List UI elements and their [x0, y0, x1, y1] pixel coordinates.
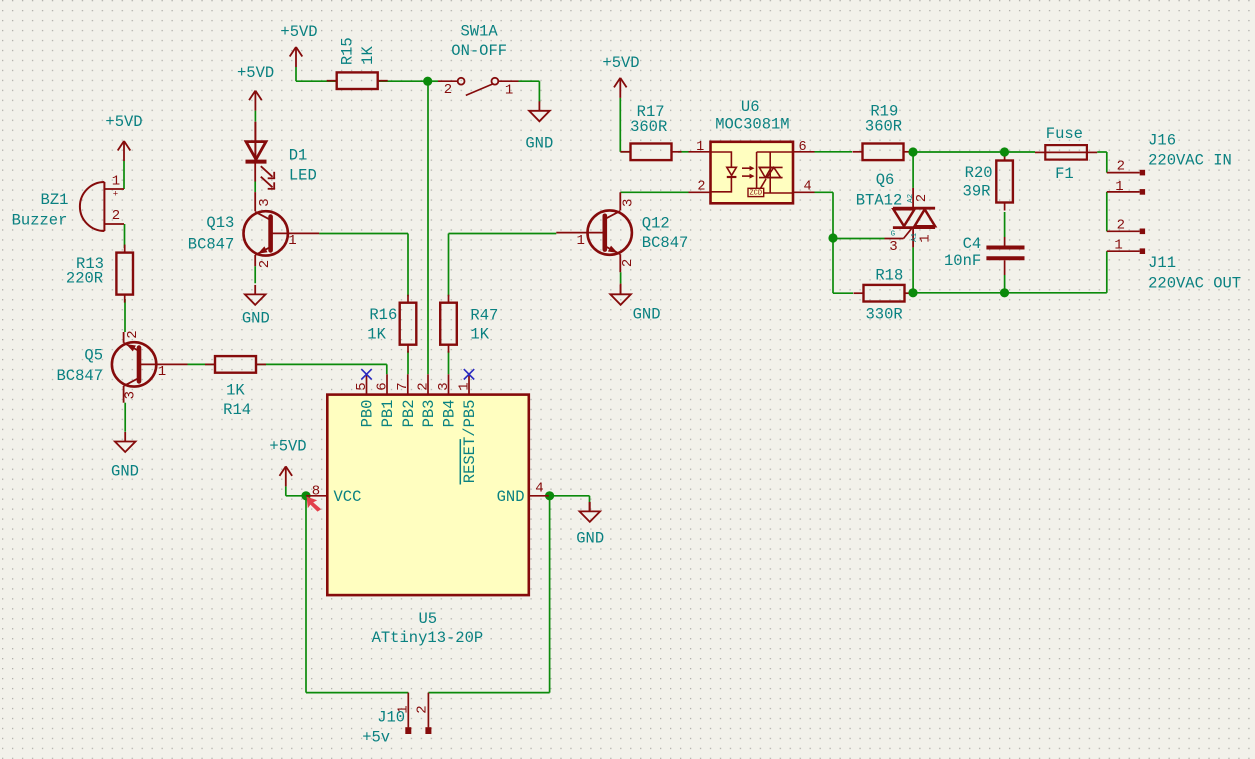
svg-text:R14: R14	[223, 401, 251, 419]
svg-text:ATtiny13-20P: ATtiny13-20P	[372, 629, 484, 647]
svg-text:4: 4	[535, 481, 543, 497]
svg-text:3: 3	[889, 239, 897, 255]
svg-text:GND: GND	[111, 462, 139, 480]
svg-text:R15: R15	[339, 37, 357, 65]
svg-text:BC847: BC847	[642, 234, 689, 252]
svg-text:GND: GND	[633, 305, 661, 323]
svg-text:2: 2	[444, 82, 452, 98]
svg-text:39R: 39R	[963, 182, 991, 200]
svg-text:6: 6	[798, 140, 806, 155]
svg-text:+5VD: +5VD	[602, 54, 639, 72]
svg-text:6: 6	[374, 382, 390, 390]
svg-text:8: 8	[312, 483, 320, 499]
svg-text:Q6: Q6	[876, 171, 895, 189]
svg-text:4: 4	[804, 180, 812, 195]
svg-text:R18: R18	[875, 266, 903, 284]
svg-text:1: 1	[576, 233, 584, 249]
svg-text:BZ1: BZ1	[41, 191, 69, 209]
svg-text:2: 2	[125, 330, 141, 338]
svg-text:BTA12: BTA12	[856, 191, 903, 209]
svg-text:R16: R16	[369, 306, 397, 324]
svg-text:1: 1	[918, 234, 934, 242]
svg-text:220VAC OUT: 220VAC OUT	[1148, 274, 1241, 292]
svg-text:10nF: 10nF	[944, 252, 981, 270]
svg-text:1K: 1K	[367, 326, 386, 344]
svg-text:GND: GND	[497, 488, 525, 506]
svg-text:+5VD: +5VD	[105, 113, 142, 131]
svg-text:D1: D1	[289, 147, 308, 165]
svg-text:RESET/PB5: RESET/PB5	[461, 400, 479, 484]
svg-text:2: 2	[697, 180, 705, 195]
svg-text:1: 1	[112, 174, 120, 190]
svg-text:1: 1	[288, 233, 296, 249]
svg-text:C4: C4	[963, 235, 982, 253]
svg-text:R47: R47	[470, 306, 498, 324]
svg-text:2: 2	[257, 260, 273, 268]
svg-text:SW1A: SW1A	[460, 22, 498, 40]
svg-text:F1: F1	[1055, 165, 1074, 183]
svg-text:220VAC IN: 220VAC IN	[1148, 152, 1232, 170]
svg-text:J11: J11	[1148, 254, 1176, 272]
svg-text:R20: R20	[965, 164, 993, 182]
svg-text:MOC3081M: MOC3081M	[715, 116, 789, 134]
svg-text:Fuse: Fuse	[1046, 125, 1083, 143]
svg-text:1K: 1K	[226, 381, 245, 399]
svg-text:1K: 1K	[470, 325, 489, 343]
svg-text:1: 1	[1115, 179, 1123, 195]
svg-text:2: 2	[914, 194, 930, 202]
svg-text:2: 2	[620, 259, 636, 267]
svg-text:ZCD: ZCD	[749, 190, 762, 198]
svg-text:PB4: PB4	[441, 400, 459, 428]
svg-text:220R: 220R	[66, 269, 103, 287]
svg-text:+5VD: +5VD	[280, 23, 317, 41]
svg-text:+5VD: +5VD	[269, 438, 306, 456]
svg-text:1: 1	[696, 140, 704, 155]
svg-text:GND: GND	[242, 310, 270, 328]
svg-text:Q13: Q13	[206, 214, 234, 232]
svg-text:VCC: VCC	[334, 488, 362, 506]
svg-text:1: 1	[505, 83, 513, 99]
svg-text:BC847: BC847	[188, 236, 235, 254]
svg-text:U6: U6	[741, 98, 760, 116]
svg-text:7: 7	[395, 382, 411, 390]
svg-text:PB3: PB3	[420, 400, 438, 428]
svg-text:+5v: +5v	[362, 728, 390, 746]
svg-text:J16: J16	[1148, 132, 1176, 150]
svg-text:Q12: Q12	[642, 215, 670, 233]
svg-text:BC847: BC847	[56, 367, 103, 385]
svg-text:Q5: Q5	[84, 346, 103, 364]
svg-text:330R: 330R	[865, 305, 902, 323]
svg-text:GND: GND	[576, 529, 604, 547]
svg-text:J10: J10	[377, 708, 405, 726]
svg-text:2: 2	[415, 382, 431, 390]
svg-text:1: 1	[456, 382, 472, 390]
svg-text:2: 2	[1117, 218, 1125, 234]
svg-text:1: 1	[158, 364, 166, 380]
svg-text:2: 2	[415, 705, 431, 713]
svg-text:+: +	[113, 190, 118, 200]
svg-text:360R: 360R	[630, 118, 667, 136]
svg-text:PB0: PB0	[359, 400, 377, 428]
svg-text:PB2: PB2	[400, 400, 418, 428]
svg-text:GND: GND	[525, 134, 553, 152]
svg-text:2: 2	[1117, 159, 1125, 175]
svg-text:3: 3	[620, 199, 636, 207]
svg-text:1K: 1K	[359, 46, 377, 65]
svg-text:A2: A2	[907, 194, 915, 203]
svg-text:3: 3	[436, 382, 452, 390]
svg-text:3: 3	[123, 391, 139, 399]
svg-text:+5VD: +5VD	[237, 64, 274, 82]
svg-text:U5: U5	[418, 610, 437, 628]
svg-text:ON-OFF: ON-OFF	[451, 42, 507, 60]
svg-text:5: 5	[354, 382, 370, 390]
svg-text:A1: A1	[911, 232, 919, 242]
svg-text:Buzzer: Buzzer	[12, 211, 68, 229]
svg-text:2: 2	[112, 208, 120, 224]
svg-text:1: 1	[1114, 237, 1122, 253]
svg-text:G: G	[891, 231, 896, 239]
svg-text:360R: 360R	[865, 117, 902, 135]
svg-text:PB1: PB1	[379, 400, 397, 428]
svg-text:3: 3	[257, 198, 273, 206]
svg-text:LED: LED	[289, 166, 317, 184]
